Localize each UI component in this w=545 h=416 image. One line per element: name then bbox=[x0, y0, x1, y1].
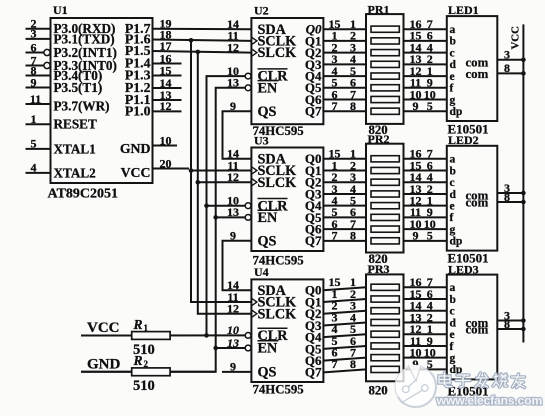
wire PR2 pin 9 to LED2 pin 5 bbox=[404, 240, 447, 242]
wire U2 Q4 to PR1 pin 5 bbox=[323, 75, 366, 77]
PR2 resistor element 7 bbox=[371, 226, 399, 232]
U4 EN overline bbox=[258, 340, 279, 342]
svg-text:5: 5 bbox=[427, 99, 433, 113]
svg-text:U4: U4 bbox=[254, 265, 269, 279]
wire CLR branch to U3 bbox=[207, 205, 246, 207]
wire P1.5 to U2 SLCK (net SLCK) bbox=[153, 51, 252, 53]
svg-text:4: 4 bbox=[31, 161, 37, 175]
junction com2 on VCC rail bbox=[521, 327, 526, 332]
PR3 resistor element 8 bbox=[371, 366, 399, 372]
svg-text:com: com bbox=[466, 67, 489, 81]
wire U1 P1.1 stub bbox=[153, 99, 182, 101]
wire U4 Q0 to PR3 pin 1 bbox=[323, 287, 366, 290]
watermark hanzi dian bbox=[439, 373, 452, 387]
svg-text:f: f bbox=[450, 341, 454, 353]
wire U3 Q6 to PR2 pin 7 bbox=[323, 228, 366, 230]
svg-text:9: 9 bbox=[413, 229, 419, 243]
U1 pin 9 wire (P3.5(T1)) bbox=[26, 87, 51, 89]
svg-text:11: 11 bbox=[30, 92, 41, 106]
wire P1.7 to U2 SDA (net SDA) bbox=[153, 28, 252, 31]
PR2 resistor element 1 bbox=[371, 156, 399, 162]
U4 pin 13 bubble bbox=[245, 345, 251, 351]
svg-text:b: b bbox=[450, 294, 456, 306]
wire PR2 pin 12 to LED2 pin 1 bbox=[404, 205, 447, 207]
wire U2 QS to U3 SDA bbox=[223, 111, 252, 159]
wire PR1 pin 16 to LED1 pin 7 bbox=[404, 28, 447, 30]
svg-text:9: 9 bbox=[31, 75, 37, 89]
resistor R2 body bbox=[132, 368, 170, 376]
junction com2 on VCC rail bbox=[521, 200, 526, 205]
junction SLCK at U3 bbox=[196, 180, 201, 185]
watermark logo notch bbox=[408, 365, 422, 382]
resistor network PR3 box bbox=[366, 274, 404, 381]
svg-text:VCC: VCC bbox=[87, 320, 120, 336]
svg-text:QS: QS bbox=[258, 233, 277, 249]
svg-text:13: 13 bbox=[227, 336, 239, 350]
svg-text:8: 8 bbox=[350, 229, 356, 243]
display LED2 box bbox=[447, 146, 498, 251]
wire U2 Q5 to PR1 pin 6 bbox=[323, 87, 366, 89]
svg-text:1: 1 bbox=[144, 323, 149, 333]
svg-text:RESET: RESET bbox=[54, 117, 97, 132]
svg-text:8: 8 bbox=[350, 357, 356, 371]
svg-text:3: 3 bbox=[31, 27, 37, 41]
wire U4 Q5 to PR3 pin 6 bbox=[323, 346, 366, 349]
wire U1 P1.2 stub bbox=[153, 87, 182, 89]
wire LED2 com pin 8 to VCC rail bbox=[497, 201, 523, 203]
wire PR2 pin 14 to LED2 pin 4 bbox=[404, 181, 447, 183]
svg-text:LED1: LED1 bbox=[448, 3, 479, 17]
svg-text:12: 12 bbox=[227, 40, 239, 54]
svg-text:c: c bbox=[450, 47, 455, 59]
wire U3 Q4 to PR2 pin 5 bbox=[323, 205, 366, 207]
svg-text:g: g bbox=[450, 224, 456, 236]
U2 CLR overline bbox=[258, 68, 288, 70]
svg-text:Q7: Q7 bbox=[305, 104, 322, 119]
wire PR2 pin 16 to LED2 pin 7 bbox=[404, 158, 447, 160]
watermark hanzi shao bbox=[493, 374, 507, 387]
wire PR1 pin 9 to LED1 pin 5 bbox=[404, 110, 447, 112]
watermark logo shadow arc bbox=[398, 373, 436, 408]
wire PR3 pin 16 to LED3 pin 7 bbox=[404, 286, 447, 288]
wire CLR vertical bus bbox=[207, 76, 246, 335]
U3 SLCK clock chevron bbox=[251, 178, 257, 186]
resistor R1 body bbox=[132, 332, 170, 340]
wire U3 Q1 to PR2 pin 2 bbox=[323, 170, 366, 172]
svg-text:PR2: PR2 bbox=[368, 132, 390, 146]
svg-text:8: 8 bbox=[504, 190, 510, 204]
svg-text:9: 9 bbox=[230, 99, 236, 113]
wire U1 P1.3 stub bbox=[153, 75, 182, 77]
svg-text:www.elecfans.com: www.elecfans.com bbox=[436, 393, 543, 407]
junction CLR at U3 bbox=[204, 203, 209, 208]
svg-text:QS: QS bbox=[258, 365, 277, 381]
wire U2 Q1 to PR1 pin 2 bbox=[323, 40, 366, 42]
svg-text:f: f bbox=[450, 212, 454, 224]
wire PR3 pin 12 to LED3 pin 1 bbox=[404, 333, 447, 335]
svg-text:U2: U2 bbox=[254, 3, 269, 17]
watermark hanzi zi bbox=[456, 375, 470, 387]
svg-text:12: 12 bbox=[227, 302, 239, 316]
wire U4 Q4 to PR3 pin 5 bbox=[323, 334, 366, 337]
wire VCC rail vertical bbox=[522, 24, 524, 342]
svg-text:12: 12 bbox=[227, 170, 239, 184]
wire SCLK branch to U3 bbox=[191, 170, 251, 172]
wire U4 Q3 to PR3 pin 4 bbox=[323, 322, 366, 325]
wire U2 Q7 to PR1 pin 8 bbox=[323, 110, 366, 112]
PR2 resistor element 4 bbox=[371, 191, 399, 197]
wire PR2 pin 13 to LED2 pin 2 bbox=[404, 193, 447, 195]
junction CLR at R1 line bbox=[204, 333, 209, 338]
wire U4 Q7 to PR3 pin 8 bbox=[323, 369, 366, 372]
svg-text:PR3: PR3 bbox=[368, 262, 390, 276]
wire EN branch to U4 bbox=[216, 347, 246, 349]
wire U1 VCC stub bbox=[153, 168, 190, 170]
svg-text:13: 13 bbox=[227, 76, 239, 90]
PR3 resistor element 1 bbox=[371, 284, 399, 290]
svg-text:820: 820 bbox=[369, 383, 388, 397]
PR1 resistor element 4 bbox=[371, 61, 399, 67]
PR3 resistor element 7 bbox=[371, 355, 399, 361]
display LED3 box bbox=[447, 275, 498, 380]
svg-text:e: e bbox=[450, 200, 455, 212]
svg-text:PR1: PR1 bbox=[368, 3, 390, 17]
wire U4 Q2 to PR3 pin 3 bbox=[323, 311, 366, 314]
PR1 resistor element 6 bbox=[371, 85, 399, 91]
svg-text:GND: GND bbox=[120, 141, 151, 156]
svg-text:AT89C2051: AT89C2051 bbox=[48, 187, 119, 202]
U1 pin 5 wire (XTAL1) bbox=[26, 148, 51, 150]
U3 SCLK clock chevron bbox=[251, 167, 257, 175]
U3 EN overline bbox=[258, 209, 279, 211]
wire EN vertical bus bbox=[81, 88, 245, 372]
U1 pin 4 wire (XTAL2) bbox=[26, 172, 51, 174]
U4 SCLK clock chevron bbox=[251, 298, 257, 306]
svg-text:2: 2 bbox=[144, 359, 149, 369]
junction EN at U3 bbox=[213, 215, 218, 220]
wire PR1 pin 15 to LED1 pin 6 bbox=[404, 40, 447, 42]
svg-text:a: a bbox=[450, 24, 456, 36]
svg-text:EN: EN bbox=[258, 210, 278, 226]
svg-text:8: 8 bbox=[504, 317, 510, 331]
svg-text:SLCK: SLCK bbox=[258, 306, 297, 322]
svg-text:VCC: VCC bbox=[121, 165, 151, 180]
wire PR1 pin 13 to LED1 pin 2 bbox=[404, 63, 447, 65]
U3 pin 10 bubble bbox=[245, 203, 251, 209]
svg-text:8: 8 bbox=[504, 61, 510, 75]
wire PR2 pin 15 to LED2 pin 6 bbox=[404, 170, 447, 172]
svg-text:e: e bbox=[450, 71, 455, 83]
wire VCC to R1 to U4 CLR line bbox=[81, 334, 245, 336]
PR3 resistor element 5 bbox=[371, 331, 399, 337]
svg-text:5: 5 bbox=[427, 357, 433, 371]
PR3 resistor element 6 bbox=[371, 343, 399, 349]
wire PR3 pin 15 to LED3 pin 6 bbox=[404, 298, 447, 300]
U4 SLCK clock chevron bbox=[251, 310, 257, 318]
svg-text:510: 510 bbox=[133, 378, 155, 394]
watermark logo circle bbox=[395, 366, 436, 407]
wire LED1 com pin 3 to VCC rail bbox=[497, 59, 523, 61]
junction EN at U4 bbox=[213, 346, 218, 351]
svg-text:LED2: LED2 bbox=[448, 133, 479, 147]
wire LED1 com pin 8 to VCC rail bbox=[497, 72, 523, 74]
watermark logo diagonal 2 bbox=[401, 390, 422, 403]
svg-text:P1.0: P1.0 bbox=[125, 104, 151, 119]
watermark logo eye 2 bbox=[422, 385, 429, 392]
junction com1 on VCC rail bbox=[521, 191, 526, 196]
wire PR1 pin 10 to LED1 pin 10 bbox=[404, 99, 447, 101]
svg-text:1: 1 bbox=[31, 112, 37, 126]
svg-text:b: b bbox=[450, 165, 456, 177]
PR3 resistor element 4 bbox=[371, 319, 399, 325]
U1 pin 3 wire (P3.1(TXD)) bbox=[26, 38, 51, 40]
PR1 resistor element 3 bbox=[371, 50, 399, 56]
svg-text:Q7: Q7 bbox=[305, 365, 322, 380]
wire U3 Q0 to PR2 pin 1 bbox=[323, 158, 366, 160]
PR2 resistor element 3 bbox=[371, 179, 399, 185]
svg-text:5: 5 bbox=[31, 137, 37, 151]
wire U1 P1.0 stub bbox=[153, 110, 182, 112]
svg-text:9: 9 bbox=[230, 229, 236, 243]
wire SLCK vertical bus bbox=[198, 52, 252, 314]
svg-text:SLCK: SLCK bbox=[258, 175, 297, 191]
display LED1 box bbox=[447, 16, 498, 121]
svg-text:R: R bbox=[133, 317, 143, 332]
PR2 resistor element 8 bbox=[371, 238, 399, 244]
svg-text:P3.5(T1): P3.5(T1) bbox=[54, 80, 103, 95]
wire PR3 pin 13 to LED3 pin 2 bbox=[404, 321, 447, 323]
svg-text:VCC: VCC bbox=[510, 26, 522, 49]
wire PR3 pin 14 to LED3 pin 4 bbox=[404, 310, 447, 312]
svg-text:GND: GND bbox=[87, 357, 121, 373]
wire EN branch to U3 bbox=[216, 216, 246, 218]
svg-text:QS: QS bbox=[258, 104, 277, 120]
svg-text:com: com bbox=[466, 196, 489, 210]
svg-text:U1: U1 bbox=[53, 3, 68, 17]
wire U3 Q5 to PR2 pin 6 bbox=[323, 216, 366, 218]
svg-text:f: f bbox=[450, 83, 454, 95]
PR2 resistor element 2 bbox=[371, 167, 399, 173]
U4 pin 10 bubble bbox=[245, 333, 251, 339]
U1 pin 2 wire (P3.0(RXD)) bbox=[26, 28, 51, 30]
svg-text:e: e bbox=[450, 329, 455, 341]
svg-text:g: g bbox=[450, 94, 456, 106]
U2 SLCK clock chevron bbox=[251, 49, 257, 57]
svg-text:EN: EN bbox=[258, 80, 278, 96]
wire PR1 pin 12 to LED1 pin 1 bbox=[404, 75, 447, 77]
junction SLCK bus bbox=[196, 50, 201, 55]
U1 pin 8 wire (P3.4(T0)) bbox=[26, 75, 51, 77]
svg-text:6: 6 bbox=[31, 40, 37, 54]
svg-text:SLCK: SLCK bbox=[258, 45, 297, 61]
svg-text:LED3: LED3 bbox=[448, 262, 479, 276]
svg-text:7: 7 bbox=[332, 229, 338, 243]
svg-text:XTAL2: XTAL2 bbox=[54, 166, 97, 181]
PR1 resistor element 7 bbox=[371, 96, 399, 102]
svg-text:U3: U3 bbox=[254, 134, 269, 148]
wire U2 Q2 to PR1 pin 3 bbox=[323, 52, 366, 54]
svg-text:7: 7 bbox=[332, 99, 338, 113]
svg-text:dp: dp bbox=[450, 236, 463, 248]
U2 SCLK clock chevron bbox=[251, 37, 257, 45]
svg-text:P3.7(WR): P3.7(WR) bbox=[54, 99, 110, 114]
wire U1 P1.4 stub bbox=[153, 63, 182, 65]
shift register U3 74HC595 box bbox=[251, 148, 323, 252]
wire U2 Q6 to PR1 pin 7 bbox=[323, 99, 366, 101]
junction SCLK at U3 bbox=[189, 168, 194, 173]
wire U3 Q2 to PR2 pin 3 bbox=[323, 181, 366, 183]
svg-text:c: c bbox=[450, 306, 455, 318]
svg-text:b: b bbox=[450, 36, 456, 48]
U1 pin 6 inversion bubble bbox=[44, 49, 50, 55]
PR1 resistor element 1 bbox=[371, 26, 399, 32]
U1 pin 6 wire (P3.2(INT1)) bbox=[26, 52, 44, 54]
wire LED2 com pin 3 to VCC rail bbox=[497, 192, 523, 194]
svg-text:a: a bbox=[450, 154, 456, 166]
watermark logo diagonal 1 bbox=[408, 379, 417, 387]
wire U2 Q3 to PR1 pin 4 bbox=[323, 63, 366, 65]
wire PR1 pin 14 to LED1 pin 4 bbox=[404, 52, 447, 54]
shift register U4 74HC595 box bbox=[251, 279, 323, 382]
junction com1 on VCC rail bbox=[521, 318, 526, 323]
svg-text:XTAL1: XTAL1 bbox=[54, 142, 96, 157]
wire U3 Q7 to PR2 pin 8 bbox=[323, 240, 366, 242]
svg-text:5: 5 bbox=[427, 229, 433, 243]
svg-text:8: 8 bbox=[350, 99, 356, 113]
svg-text:9: 9 bbox=[230, 360, 236, 374]
wire P1.6 to U2 SCLK (net SCLK) bbox=[153, 40, 252, 41]
svg-text:74HC595: 74HC595 bbox=[253, 383, 304, 397]
svg-text:g: g bbox=[450, 352, 456, 364]
shift register U2 74HC595 box bbox=[251, 18, 323, 124]
wire GND to R2 to EN bus bbox=[81, 371, 216, 373]
watermark hanzi fa bbox=[476, 373, 488, 387]
U1 pin 1 wire (RESET) bbox=[26, 123, 51, 125]
wire PR3 pin 10 to LED3 pin 10 bbox=[404, 357, 447, 359]
svg-text:13: 13 bbox=[227, 205, 239, 219]
wire PR2 pin 11 to LED2 pin 9 bbox=[404, 216, 447, 218]
watermark logo eye 1 bbox=[403, 386, 410, 393]
PR3 resistor element 3 bbox=[371, 308, 399, 314]
U2 pin 10 bubble bbox=[245, 73, 251, 79]
svg-text:a: a bbox=[450, 282, 456, 294]
svg-text:Q7: Q7 bbox=[305, 233, 322, 248]
mcu U1 AT89C2051 box bbox=[51, 18, 153, 183]
junction SCLK bus bbox=[189, 38, 194, 43]
wire SCLK vertical bus bbox=[191, 40, 251, 302]
PR3 resistor element 2 bbox=[371, 296, 399, 302]
wire PR1 pin 11 to LED1 pin 9 bbox=[404, 87, 447, 89]
wire PR3 pin 9 to LED3 pin 5 bbox=[404, 368, 447, 370]
PR1 resistor element 5 bbox=[371, 73, 399, 79]
wire U3 Q3 to PR2 pin 4 bbox=[323, 193, 366, 195]
svg-text:9: 9 bbox=[413, 99, 419, 113]
resistor network PR2 box bbox=[366, 144, 404, 253]
junction com1 on VCC rail bbox=[521, 58, 526, 63]
wire U4 Q6 to PR3 pin 7 bbox=[323, 358, 366, 361]
wire SLCK branch to U3 bbox=[198, 181, 252, 183]
watermark hanzi you bbox=[512, 374, 525, 388]
junction com2 on VCC rail bbox=[521, 71, 526, 76]
wire PR3 pin 11 to LED3 pin 9 bbox=[404, 345, 447, 347]
U3 pin 13 bubble bbox=[245, 215, 251, 221]
svg-text:com: com bbox=[466, 323, 489, 337]
U2 pin 13 bubble bbox=[245, 85, 251, 91]
U1 pin 7 inversion bubble bbox=[44, 62, 50, 68]
svg-text:7: 7 bbox=[332, 357, 338, 371]
svg-text:dp: dp bbox=[450, 106, 463, 118]
svg-text:R: R bbox=[133, 353, 143, 368]
U3 CLR overline bbox=[258, 198, 288, 200]
wire U4 QS stub bbox=[222, 371, 251, 373]
wire U3 QS to U4 SDA bbox=[223, 241, 252, 290]
svg-text:d: d bbox=[450, 317, 457, 329]
wire U1 GND stub bbox=[153, 145, 178, 147]
resistor network PR1 box bbox=[366, 14, 404, 124]
svg-text:c: c bbox=[450, 177, 455, 189]
PR1 resistor element 2 bbox=[371, 38, 399, 44]
U1 pin 11 wire (P3.7(WR)) bbox=[26, 103, 51, 105]
svg-text:EN: EN bbox=[258, 341, 278, 357]
svg-text:d: d bbox=[450, 59, 457, 71]
svg-text:d: d bbox=[450, 189, 457, 201]
U4 CLR overline bbox=[258, 327, 288, 329]
PR2 resistor element 6 bbox=[371, 214, 399, 220]
wire U4 Q1 to PR3 pin 2 bbox=[323, 299, 366, 302]
U1 pin 7 wire (P3.3(INT0)) bbox=[26, 65, 44, 67]
PR2 resistor element 5 bbox=[371, 203, 399, 209]
wire PR2 pin 10 to LED2 pin 10 bbox=[404, 228, 447, 230]
wire U2 Q0 to PR1 pin 1 bbox=[323, 28, 366, 30]
wire LED3 com pin 8 to VCC rail bbox=[497, 328, 523, 330]
PR1 resistor element 8 bbox=[371, 108, 399, 114]
U2 EN overline bbox=[258, 80, 279, 82]
wire LED3 com pin 3 to VCC rail bbox=[497, 320, 523, 322]
